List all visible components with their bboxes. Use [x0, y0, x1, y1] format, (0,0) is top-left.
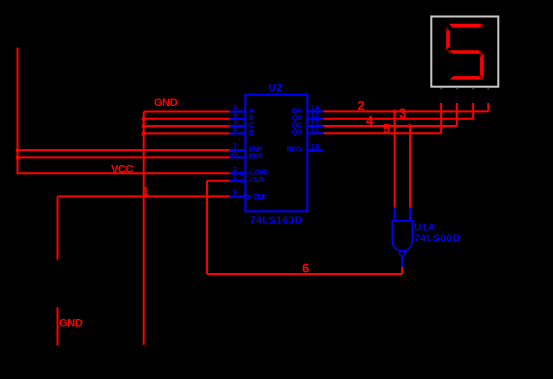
- wire: D net horizontal (pin 6): [144, 132, 230, 134]
- wire: CLK net horizontal (net 1): [58, 195, 230, 197]
- junction on net 2 at NAND input A: [393, 110, 396, 113]
- wire: B net horizontal (pin 4): [144, 118, 230, 120]
- svg-text:10: 10: [230, 151, 239, 158]
- U2 pin 13 stub (QB): [307, 118, 323, 120]
- wire: QA net 2 horizontal: [324, 110, 489, 112]
- svg-text:-LOAD: -LOAD: [248, 170, 269, 177]
- U2 pin 10 stub (ENT): [230, 156, 246, 158]
- counter U2 74LS163D body: [245, 83, 307, 226]
- display pin stub 1: [440, 88, 442, 90]
- U2 pin 15 stub (RCO): [307, 149, 323, 151]
- wire: A net horizontal (pin 3): [144, 111, 230, 113]
- svg-text:VCC: VCC: [111, 163, 133, 175]
- svg-text:2: 2: [233, 167, 238, 174]
- svg-text:74LS163D: 74LS163D: [250, 216, 303, 227]
- wire: QD net 5 horizontal: [324, 132, 442, 134]
- U2 pin 7 stub (ENP): [230, 149, 246, 151]
- svg-text:5: 5: [233, 119, 238, 126]
- U2 pin 4 stub (B): [230, 118, 246, 120]
- svg-text:1: 1: [233, 174, 238, 181]
- svg-text:12: 12: [311, 119, 320, 126]
- wire: ENT net horizontal: [17, 156, 230, 158]
- svg-text:14: 14: [311, 105, 320, 112]
- U2 pin 1 inversion bubble: [241, 180, 244, 183]
- U2 pin 5 stub (C): [230, 125, 246, 127]
- U2 pin 2 stub (~LOAD): [230, 172, 240, 174]
- display pin stub 2: [456, 88, 458, 90]
- svg-text:GND: GND: [59, 318, 83, 330]
- svg-text:2: 2: [358, 98, 365, 113]
- U2 clock triangle: [246, 195, 250, 200]
- svg-text:RCO: RCO: [287, 147, 302, 154]
- display pin stub 3: [472, 88, 474, 90]
- wire: net 6 vertical at x=207: [206, 181, 208, 274]
- display pin stub 4: [487, 88, 489, 90]
- svg-text:4: 4: [366, 113, 374, 128]
- 7-segment display U3 body: [431, 17, 498, 90]
- wire: net 6 from pin 1 (~CLR) horizontal stub: [207, 180, 230, 182]
- svg-text:U2: U2: [269, 83, 283, 94]
- wire: QC net 4 horizontal: [324, 125, 457, 127]
- wire: QB net 3 vertical riser to display: [472, 103, 474, 119]
- svg-text:QC: QC: [292, 122, 302, 129]
- svg-text:6: 6: [233, 127, 238, 134]
- junction on B wire: [142, 117, 145, 120]
- U1A output pin stub: [401, 256, 403, 267]
- U1A input pin stub B: [409, 208, 411, 221]
- junction on ENP wire: [16, 149, 19, 152]
- display segment d (bottom): [450, 76, 484, 80]
- wire: GND bus vertical: [143, 112, 145, 345]
- U2 pin 12 stub (QC): [307, 125, 323, 127]
- display segment c (lower-right): [480, 53, 484, 78]
- wire: NAND input A drop from net 2: [394, 111, 396, 207]
- svg-text:7: 7: [233, 143, 238, 150]
- svg-text:ENT: ENT: [249, 154, 263, 161]
- svg-text:74LS00D: 74LS00D: [414, 233, 460, 244]
- junction on C wire: [142, 124, 145, 127]
- junction on D wire: [142, 132, 145, 135]
- junction on ENT wire: [16, 156, 19, 159]
- wire: NAND input B drop from net 4: [409, 126, 411, 208]
- U2 pin 2 inversion bubble: [241, 172, 244, 175]
- svg-text:B: B: [249, 115, 254, 122]
- wire: ENP net horizontal: [17, 149, 230, 151]
- U2 pin 9 stub (CLK): [230, 195, 246, 197]
- svg-text:3: 3: [399, 105, 406, 120]
- wire: QD net 5 vertical riser to display: [440, 103, 442, 133]
- svg-text:6: 6: [302, 261, 309, 276]
- wire: left vertical stub of VCC net: [17, 48, 19, 174]
- U2 pin 3 stub (A): [230, 111, 246, 113]
- svg-text:3: 3: [233, 105, 238, 112]
- svg-text:15: 15: [311, 144, 320, 151]
- svg-text:ENP: ENP: [249, 146, 263, 153]
- svg-text:A: A: [249, 108, 254, 115]
- svg-text:13: 13: [311, 112, 320, 119]
- U1A output inversion bubble: [400, 251, 405, 256]
- wire: QA net 2 vertical riser to display: [487, 103, 489, 111]
- svg-text:C: C: [249, 123, 254, 130]
- svg-text:1: 1: [142, 184, 149, 199]
- svg-text:9: 9: [233, 190, 238, 197]
- display segment f (upper-left): [446, 27, 450, 50]
- wire: net 6 long horizontal to NAND output: [207, 273, 402, 275]
- svg-text:QA: QA: [292, 108, 302, 115]
- wire: CLK net vertical drop: [57, 196, 59, 259]
- wire: VCC net horizontal to pin 2: [17, 172, 230, 174]
- svg-text:CLK: CLK: [253, 194, 267, 201]
- svg-text:11: 11: [311, 127, 320, 134]
- svg-text:QD: QD: [292, 130, 302, 137]
- wire: net 6 vertical riser to NAND output pin: [401, 267, 403, 274]
- wire: QC net 4 vertical riser to display: [456, 103, 458, 126]
- ground symbol stem: [57, 307, 59, 345]
- NAND gate U1A body: [392, 208, 460, 267]
- svg-text:GND: GND: [154, 97, 178, 109]
- svg-text:U1A: U1A: [414, 223, 436, 234]
- svg-text:4: 4: [233, 112, 238, 119]
- junction on net 4 at NAND input B: [408, 124, 411, 127]
- U1A input pin stub A: [394, 208, 396, 221]
- display segment g (middle): [447, 50, 482, 54]
- U2 pin 6 stub (D): [230, 132, 246, 134]
- wire: C net horizontal (pin 5): [144, 125, 230, 127]
- U2 pin 1 stub (~CLR): [230, 180, 240, 182]
- svg-text:-CLR: -CLR: [248, 177, 263, 184]
- wire: QB net 3 horizontal: [324, 118, 474, 120]
- U2 pin 11 stub (QD): [307, 132, 323, 134]
- svg-text:5: 5: [383, 121, 390, 136]
- U2 pin 14 stub (QA): [307, 110, 323, 112]
- display segment a (top): [449, 24, 484, 28]
- svg-text:D: D: [249, 130, 254, 137]
- svg-text:QB: QB: [292, 115, 302, 122]
